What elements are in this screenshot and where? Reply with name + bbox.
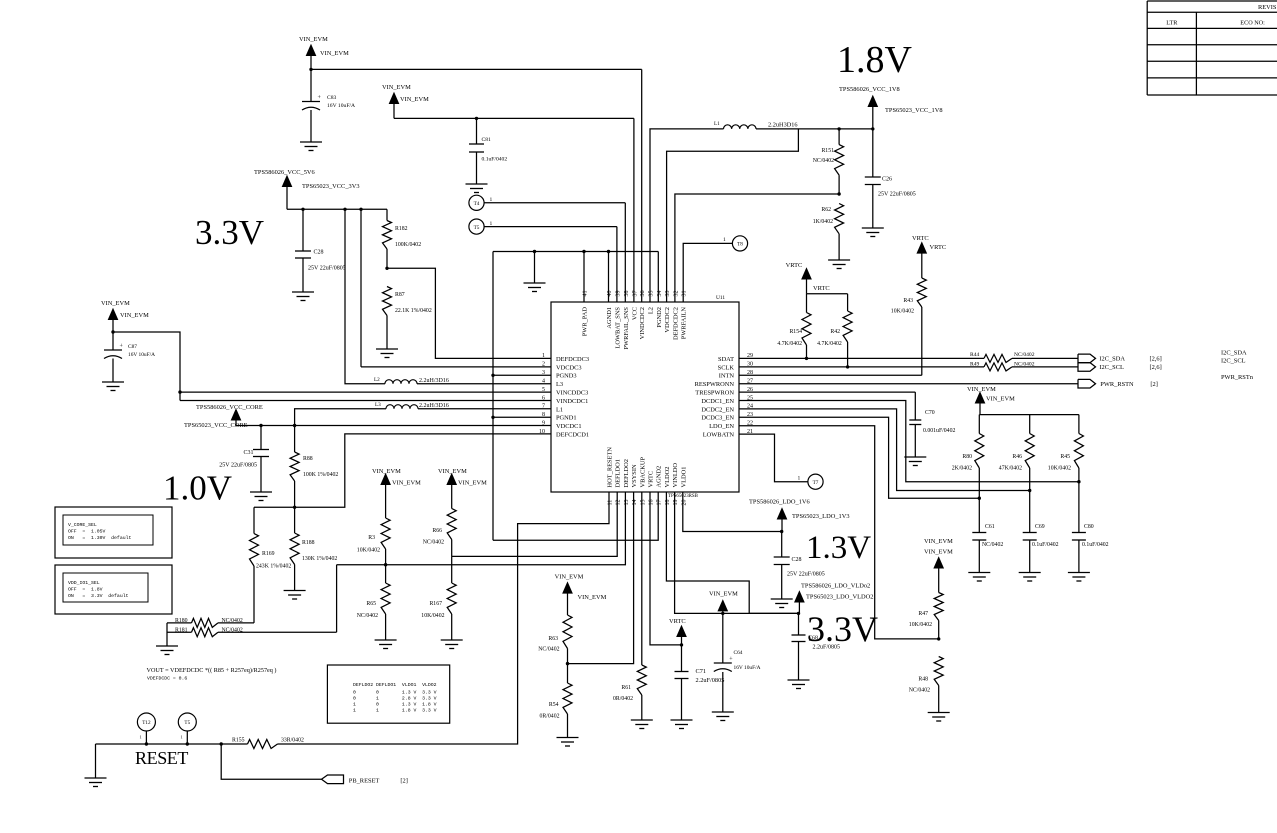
wire VDCDC3 to pin2 [360,209,362,367]
svg-text:C87: C87 [128,344,137,350]
wire L3 left leg [295,409,386,452]
junction VRTC node [680,643,683,646]
svg-text:C81: C81 [482,137,492,143]
wire VCC_CORE bus to pin9 VDCDC1 [236,425,551,427]
wire pin27 RESPWRONN [739,383,1078,385]
svg-text:VIN_EVM: VIN_EVM [299,36,328,43]
svg-text:VIN_EVM: VIN_EVM [924,549,953,556]
test point T5 (reset) [178,713,196,744]
svg-text:VIN_EVM: VIN_EVM [382,84,411,91]
wire pullup bus [979,414,1079,416]
wire reset net [96,743,248,745]
junction C87 [111,330,114,333]
svg-text:1: 1 [542,353,545,359]
svg-text:[2]: [2] [400,778,407,785]
wire VIN_EVM top rail [311,68,642,70]
wire to pin6 VINDCDC1 [180,400,551,402]
junction pin3 [491,374,494,377]
resistor R180 [167,618,254,627]
ground below C64 [712,711,734,713]
svg-text:NC/0402: NC/0402 [222,628,243,634]
svg-text:VIN_EVM: VIN_EVM [967,386,996,393]
svg-text:LDO_EN: LDO_EN [709,423,734,430]
capacitor C28 [295,209,346,291]
svg-text:L1: L1 [556,406,563,413]
junction R151 [837,127,840,130]
ground below C68 [788,679,810,681]
resistor R49 [970,362,1035,371]
wire L2 to pin4 [417,383,551,385]
svg-text:1: 1 [181,735,183,740]
svg-text:0.1uF/0402: 0.1uF/0402 [1082,542,1109,548]
wire pin24 DCDC2_EN to R46 [739,409,1030,491]
ground below R188 [284,590,306,592]
svg-text:VIN_EVM: VIN_EVM [372,468,401,475]
svg-text:10K/0402: 10K/0402 [909,622,932,628]
capacitor C61 [972,524,1003,572]
ground below C70 [904,456,926,458]
svg-text:PWR_RSTn: PWR_RSTn [1221,374,1254,381]
resistor R66 [423,509,456,557]
wire VIN rail 2 [394,117,634,119]
svg-text:U11: U11 [716,295,725,301]
svg-text:VRTC: VRTC [786,262,803,269]
power flag TPS65023_VCC_3V3 [254,169,360,209]
junction C31 [259,424,262,427]
svg-text:1K/0402: 1K/0402 [813,219,833,225]
svg-text:TPS586026_VCC_1V8: TPS586026_VCC_1V8 [839,86,900,93]
svg-text:R48: R48 [918,677,928,683]
svg-text:C69: C69 [1035,524,1045,530]
svg-text:10K/0402: 10K/0402 [357,548,380,554]
capacitor C83 [302,69,355,142]
wire R181 to DEFLDO2 line [336,565,338,633]
ground left of reset [95,744,97,778]
svg-text:SCLK: SCLK [718,364,735,371]
junction VDCDC3 tap [359,208,362,211]
wire pin14 VSYSIN [568,492,634,664]
svg-text:OFF = 1.05V: OFF = 1.05V [68,529,106,535]
svg-text:VIN_EVM: VIN_EVM [120,312,149,319]
wire pin26 TRESPWRON [739,391,915,393]
resistor R88 [290,452,338,481]
test point T7 [798,474,824,489]
junction VSYSIN node [566,662,569,665]
svg-text:ON = 1.30V default: ON = 1.30V default [68,535,131,541]
svg-text:LOWBAT_SNS: LOWBAT_SNS [614,307,621,349]
ground below C87 [102,381,124,383]
power flag TPS65023_VCC_1V8 [839,86,943,129]
svg-text:DCDC3_EN: DCDC3_EN [701,415,734,422]
svg-text:PWRFAIL_SNS: PWRFAIL_SNS [623,307,630,350]
resistor R44 [970,352,1035,362]
svg-text:VDCDC3: VDCDC3 [556,364,582,371]
svg-text:VDEFDCDC = 0.6: VDEFDCDC = 0.6 [147,676,187,682]
svg-text:TPS586026_LDO_VLDo2: TPS586026_LDO_VLDo2 [801,583,870,590]
wire pin41 PWR_PAD [583,252,585,303]
svg-text:R154: R154 [789,329,802,335]
junction R182/R87 [385,267,388,270]
svg-text:LTR: LTR [1166,20,1178,27]
svg-text:R167: R167 [429,601,442,607]
svg-text:L2: L2 [648,307,655,314]
svg-text:VIN_EVM: VIN_EVM [392,480,421,487]
svg-text:L3: L3 [375,402,381,408]
ground below C81 [466,183,488,185]
svg-text:TPS586026_VCC_5V6: TPS586026_VCC_5V6 [254,169,315,176]
svg-text:R151: R151 [821,148,834,154]
svg-text:0R/0402: 0R/0402 [540,714,560,720]
svg-text:VRTC: VRTC [930,244,947,251]
svg-text:T5: T5 [184,720,190,726]
wire pin19 VINLDO [675,492,799,613]
svg-text:1 1 1.8 V 3.3 V: 1 1 1.8 V 3.3 V [353,708,437,714]
wire pin21 LOWBATN [739,434,808,482]
resistor R46 [999,415,1034,472]
wire R80 to C61 [978,468,980,533]
svg-text:PWR_PAD: PWR_PAD [582,307,589,337]
svg-text:0.1uF/0402: 0.1uF/0402 [482,157,508,163]
svg-text:C80: C80 [1084,524,1094,530]
svg-text:DEFLDO2: DEFLDO2 [623,459,630,487]
junction divider to pin10 [293,506,296,509]
svg-text:R47: R47 [918,611,928,617]
svg-text:R3: R3 [368,535,375,541]
junction PB_RESET branch [220,742,223,745]
wire R180/R181 ground leg [166,623,168,646]
svg-text:2.2uF/0805: 2.2uF/0805 [813,645,841,651]
junction R3/R65 node [384,563,387,566]
svg-text:6: 6 [542,395,545,401]
power flag VRTC above C71 [669,618,686,672]
ic left pin names and numbers [539,353,589,438]
svg-text:C31: C31 [243,450,253,456]
svg-text:3.3V: 3.3V [807,609,878,649]
capacitor C68 (LDO2) [792,613,841,679]
svg-text:T5: T5 [474,225,480,231]
wire DEFLDO2 net to pin13 [337,492,626,565]
junction pin5 feed [178,390,181,393]
wire PB_RESET branch [221,744,321,779]
svg-text:TPS586026_VCC_CORE: TPS586026_VCC_CORE [196,404,263,411]
svg-text:LOWBATN: LOWBATN [703,432,735,439]
wire R49 to tag [1012,366,1078,368]
svg-text:NC/0402: NC/0402 [1014,352,1035,358]
junction R154 SDAT [805,357,808,360]
svg-text:PB_RESET: PB_RESET [349,778,380,785]
svg-text:130K 1%/0402: 130K 1%/0402 [302,556,337,562]
svg-text:T7: T7 [813,480,819,486]
svg-text:10: 10 [539,429,545,435]
wire divider to pin1 DEFDCDC3 [387,268,551,358]
inductor L1 2.2uH/3D16 [714,121,798,129]
resistor R48 [909,657,943,713]
svg-text:R43: R43 [903,298,913,304]
svg-text:1: 1 [140,735,142,740]
wire pin23 DCDC3_EN to R80 [739,417,979,498]
power flag VIN_EVM (left mid) [101,300,149,332]
svg-text:25V 22uF/0805: 25V 22uF/0805 [878,192,916,198]
svg-text:C64: C64 [734,650,743,656]
junction L2 tap [343,208,346,211]
svg-text:VIN_EVM: VIN_EVM [924,538,953,545]
svg-text:VDD_IO1_SEL: VDD_IO1_SEL [68,580,100,586]
svg-text:100K/0402: 100K/0402 [395,242,421,248]
svg-text:I2C_SCL: I2C_SCL [1099,364,1124,371]
tag PB_RESET [322,775,408,785]
svg-text:R88: R88 [303,456,313,462]
wire R44 to tag [1012,357,1078,359]
wire pin22 LDO_EN [739,426,939,639]
svg-text:[2]: [2] [1150,381,1157,388]
power flag VRTC (left) [786,262,830,294]
svg-text:TPS65023_LDO_VLDO2: TPS65023_LDO_VLDO2 [806,594,873,601]
wire T5 to pin39 [484,226,617,228]
svg-text:R188: R188 [302,540,315,546]
wire pin31 PWRFAILN to T8 [683,243,732,302]
svg-text:T8: T8 [737,242,743,248]
svg-text:VLDO2: VLDO2 [664,467,671,488]
power flag VIN_EVM (top-left) [299,36,349,69]
title block revisions table [1147,1,1277,95]
junction VLDO2 cap [797,612,800,615]
svg-text:16V 10uF/A: 16V 10uF/A [327,103,355,109]
svg-text:R66: R66 [432,528,442,534]
resistor R65 [357,583,390,640]
svg-text:C68: C68 [808,636,818,642]
power flag VIN_EVM (pullup bus) [967,386,1015,415]
resistor R43 [891,278,927,375]
svg-text:TPS65023_VCC_1V8: TPS65023_VCC_1V8 [885,107,943,114]
svg-text:VRTC: VRTC [669,618,686,625]
svg-text:33R/0402: 33R/0402 [281,738,304,744]
wire to pin5 VINDCDC3 [180,391,551,393]
junction VLDO1 node [780,530,783,533]
svg-text:ON = 3.3V default: ON = 3.3V default [68,593,129,599]
svg-text:R169: R169 [262,551,275,557]
svg-text:TRESPWRON: TRESPWRON [695,390,734,397]
svg-text:R42: R42 [830,329,840,335]
svg-text:2.2uH3D16: 2.2uH3D16 [768,122,798,129]
wire R88 to R188 [294,481,296,533]
svg-text:100K 1%/0402: 100K 1%/0402 [303,472,338,478]
svg-text:R62: R62 [821,207,831,213]
svg-text:OFF = 1.8V: OFF = 1.8V [68,587,103,593]
ground below R167 [441,639,463,641]
svg-text:+: + [729,657,733,663]
svg-text:VIN_EVM: VIN_EVM [400,96,429,103]
capacitor C71 [675,668,725,720]
resistor R54 [540,664,572,737]
svg-text:PWRFAILN: PWRFAILN [681,307,688,340]
svg-text:VINDCDC2: VINDCDC2 [639,307,646,339]
svg-text:C61: C61 [985,524,995,530]
junction T12 [145,742,148,745]
svg-text:TPS65023_VCC_3V3: TPS65023_VCC_3V3 [302,183,360,190]
wire pin29 SDAT [739,357,984,359]
svg-text:7: 7 [542,404,545,410]
wire VLDO2 node [749,612,798,614]
wire R45 to C80 [1078,468,1080,533]
power flag VIN_EVM above R3 [372,468,421,518]
inductor L2 2.2uH/3D16 [374,377,449,384]
svg-text:I2C_SCL: I2C_SCL [1221,358,1246,365]
wire pin32 DEFDCDC2 [675,194,839,302]
capacitor C69 [1023,524,1059,572]
svg-text:DEFCDCD1: DEFCDCD1 [556,432,589,439]
svg-text:R46: R46 [1012,454,1022,460]
svg-text:R180: R180 [175,618,188,624]
ic right pin names and numbers [695,353,753,438]
resistor R63 [538,615,572,664]
svg-text:L1: L1 [714,121,720,127]
wire pin10 DEFDCDC1 net [254,434,551,507]
svg-text:2K/0402: 2K/0402 [952,466,972,472]
svg-text:C28: C28 [792,557,802,563]
tag I2C_SCL [1078,363,1162,372]
svg-text:C83: C83 [327,95,337,101]
svg-text:NC/0402: NC/0402 [982,542,1003,548]
svg-text:TPS586026_LDO_1V6: TPS586026_LDO_1V6 [749,499,810,506]
capacitor C26 [865,129,916,228]
ic bottom pin names and numbers [607,447,688,506]
wire pin30 SCLK [739,366,984,368]
svg-text:VIN_EVM: VIN_EVM [578,594,607,601]
resistor R62 [813,204,844,260]
svg-text:1: 1 [490,197,493,203]
svg-text:DEFDCDC2: DEFDCDC2 [672,307,679,340]
svg-text:37: 37 [632,291,638,297]
svg-text:16V 10uF/A: 16V 10uF/A [128,352,155,358]
wire pin33 VDCDC2 sense [667,129,799,302]
test point T4 [469,195,493,210]
svg-text:VSYSIN: VSYSIN [631,464,638,487]
svg-text:VINCDDC3: VINCDDC3 [556,390,588,397]
tag I2C_SDA [1078,354,1162,363]
wire R46 to C69 [1029,468,1031,533]
svg-text:NC/0402: NC/0402 [222,618,243,624]
svg-text:PGND2: PGND2 [656,307,663,328]
ground below C31 [250,491,272,493]
wire pin25 DCDC1_EN to R45 [739,401,1079,482]
svg-text:PGND3: PGND3 [556,373,577,380]
option box V_CORE_SEL [55,507,172,558]
svg-text:10K/0402: 10K/0402 [891,309,914,315]
svg-text:VDCDC2: VDCDC2 [664,307,671,333]
junction pin8 [491,416,494,419]
svg-text:VINLDO: VINLDO [672,463,679,488]
svg-text:0.1uF/0402: 0.1uF/0402 [1032,542,1059,548]
svg-text:0 0 1.3 V 3.3 V: 0 0 1.3 V 3.3 V [353,690,437,696]
svg-text:T12: T12 [142,720,151,726]
ground below R87 [376,348,398,350]
junction R151/R62 [837,192,840,195]
wire pin35 L2 to inductor L1 [650,129,724,302]
svg-text:R44: R44 [970,352,980,358]
svg-text:39: 39 [615,291,621,297]
svg-text:L3: L3 [556,381,563,388]
svg-text:R49: R49 [970,362,980,368]
svg-text:I2C_SDA: I2C_SDA [1099,356,1125,363]
svg-text:VIN_EVM: VIN_EVM [101,300,130,307]
wire pin20 VLDO1 [683,492,782,532]
svg-text:C26: C26 [882,177,892,183]
svg-text:DEFLDO2 DEFLDO1 VLDO1 VLDO2: DEFLDO2 DEFLDO1 VLDO1 VLDO2 [353,682,437,688]
svg-text:0 1 2.8 V 3.3 V: 0 1 2.8 V 3.3 V [353,696,437,702]
wire to pin36 VINDCDC2 [641,69,643,302]
svg-text:4: 4 [542,379,545,385]
capacitor C87 [104,332,155,382]
ic U11 TPS65023RSB body [551,295,739,499]
svg-text:VOUT = VDEFDCDC *(( R85 + R257: VOUT = VDEFDCDC *(( R85 + R257eq)/R257eq… [147,667,277,674]
svg-text:RESET: RESET [135,748,188,768]
capacitor C28 (LDO1) [774,532,825,599]
inductor L3 2.2uH/3D16 [375,402,449,409]
ic top pin names and numbers [582,291,688,350]
wire pin3 PGND3 [493,374,551,376]
wire PGND vertical [492,252,494,541]
capacitor C31 [219,426,269,492]
svg-text:VIN_EVM: VIN_EVM [555,574,584,581]
ground below C83 [300,141,322,143]
junction T5b [186,742,189,745]
junction C81 [475,117,478,120]
test point T8 [723,236,748,251]
svg-text:R54: R54 [549,702,559,708]
wire pin17 AGND2 [493,492,658,540]
svg-text:13: 13 [624,500,630,506]
resistor R167 [421,556,456,639]
svg-text:VIN_EVM: VIN_EVM [320,50,349,57]
svg-text:L2: L2 [374,377,380,383]
svg-text:VIN_EVM: VIN_EVM [438,468,467,475]
test point T5 [469,219,493,234]
svg-text:VDCDC1: VDCDC1 [556,423,582,430]
svg-text:1.3V: 1.3V [806,530,871,566]
junction C26 [871,127,874,130]
ground below C69 [1019,572,1041,574]
svg-text:25V 22uF/0805: 25V 22uF/0805 [308,266,346,272]
capacitor C70 [909,392,955,456]
capacitor C81 [469,118,507,183]
svg-text:10K/0402: 10K/0402 [1048,466,1071,472]
svg-text:4.7K/0402: 4.7K/0402 [817,341,842,347]
svg-text:R181: R181 [175,628,188,634]
svg-text:47K/0402: 47K/0402 [999,466,1022,472]
svg-text:R182: R182 [395,226,408,232]
svg-text:4.7K/0402: 4.7K/0402 [777,341,802,347]
svg-text:0.001uF/0402: 0.001uF/0402 [923,428,955,434]
wire 3V3 to L2 [345,209,385,383]
svg-text:3.3V: 3.3V [195,213,264,252]
svg-text:HOT_RESETN: HOT_RESETN [607,447,614,488]
wire L3 to pin7 [418,408,551,410]
power flag TPS65023_VCC_CORE [184,404,263,429]
svg-text:VIN_EVM: VIN_EVM [709,591,738,598]
power flag VRTC (right) [912,235,946,278]
svg-text:1: 1 [798,476,801,482]
svg-text:NC/0402: NC/0402 [813,158,834,164]
power flag VIN_EVM above R66 [438,468,487,509]
svg-text:VINDCDC1: VINDCDC1 [556,398,588,405]
junction L3/R88 on VCC_CORE [293,424,296,427]
power flag VIN_EVM (second) [382,84,429,118]
capacitor C64 [714,650,761,712]
resistor R45 [1048,415,1084,472]
resistor R87 [383,287,432,349]
svg-text:11: 11 [608,500,614,506]
svg-text:1: 1 [723,237,726,243]
